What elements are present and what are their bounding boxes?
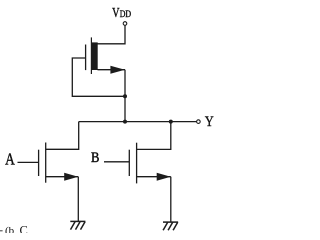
transistor M1 channel line [90, 37, 92, 74]
node Y terminal circle [197, 120, 201, 124]
node VDD terminal circle [123, 22, 127, 26]
transistor M1 source arrow [110, 66, 125, 74]
transistor M1 depletion bar [92, 42, 98, 70]
svg-text:DD: DD [120, 10, 132, 20]
wire input A lead [18, 161, 39, 163]
junction dot output node left [123, 120, 127, 124]
svg-text:Y: Y [205, 114, 214, 130]
wire M1 source node down to output node [124, 70, 126, 122]
transistor Q2 channel line [136, 143, 138, 184]
transistor Q2 gate line [128, 150, 130, 176]
wire Q2 source down to ground [170, 177, 172, 222]
junction dot output node right [169, 120, 173, 124]
junction dot M1 gate-source [123, 94, 127, 98]
wire input B lead [104, 161, 129, 163]
transistor M1 source lead [98, 69, 126, 71]
ground GND1 (under Q1) [70, 221, 85, 229]
wire drain of Q1 up to Y line [46, 122, 79, 150]
wire Q1 source down to ground [77, 177, 79, 221]
svg-text:V: V [112, 6, 119, 21]
transistor Q1 source arrow [64, 173, 78, 181]
svg-text:C: C [20, 223, 28, 233]
svg-text:B: B [91, 150, 99, 166]
svg-text:A: A [5, 149, 15, 168]
transistor Q1 channel line [45, 143, 47, 183]
caption fragment dash [0, 230, 3, 231]
ground GND2 (under Q2) [163, 222, 178, 230]
wire drain of Q2 up to Y line [137, 122, 171, 150]
wire VDD stem to drain of M1 [98, 25, 126, 44]
transistor Q1 gate line [38, 150, 40, 176]
transistor Q1 source lead [46, 176, 79, 178]
wire output Y line [79, 121, 197, 123]
svg-text:(b: (b [5, 225, 15, 233]
transistor Q2 source lead [137, 176, 171, 178]
transistor M1 gate line [85, 45, 87, 71]
transistor Q2 source arrow [157, 173, 171, 181]
wire gate feedback of M1 to source node [72, 58, 125, 96]
